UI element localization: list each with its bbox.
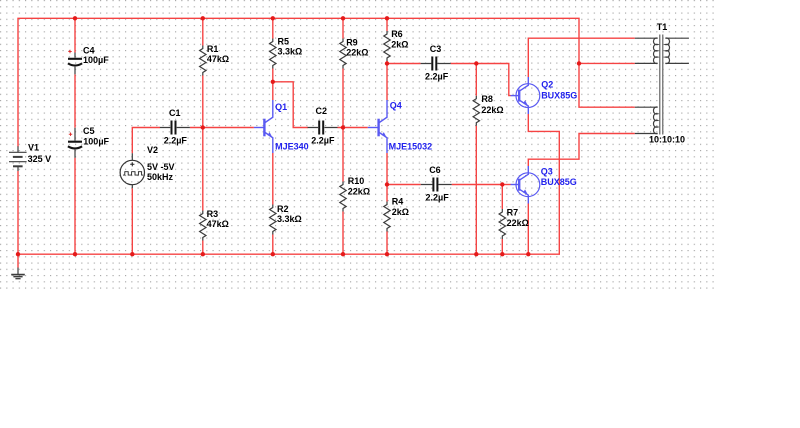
junction bottom rail ground [16,252,20,256]
svg-text:R4: R4 [392,197,404,207]
svg-text:MJE340: MJE340 [275,142,309,152]
resistor R1 [200,44,230,76]
wire Q3 collector to secondary bottom [528,134,635,167]
wire C2 to R9 R10 node to Q4 base [338,127,368,129]
svg-text:C3: C3 [430,44,442,54]
svg-text:R10: R10 [348,176,365,186]
svg-text:22kΩ: 22kΩ [346,48,368,58]
transformer T1 [635,22,689,145]
svg-text:V1: V1 [28,143,39,153]
svg-text:2kΩ: 2kΩ [392,207,409,217]
junction node C2 R9 R10 [341,125,345,129]
wire ground stub [17,254,19,267]
junction bottom rail R3 [201,252,205,256]
wire R9 top [342,18,344,38]
wire C6 to R7 node [452,184,503,186]
junction node R6 Q4 collector C3 [385,61,389,65]
svg-text:50kHz: 50kHz [147,172,174,182]
resistor R2 [270,204,302,235]
wire R3 bottom [202,241,204,255]
wire R4 bottom [386,232,388,255]
wire top V+ rail [18,18,579,146]
junction Q1 collector branch [271,80,275,84]
capacitor C1 [160,108,190,146]
junction top rail R6 [385,16,389,20]
svg-text:47kΩ: 47kΩ [207,54,229,64]
wire Q2 collector to primary top [528,38,635,77]
wire C6 line left [387,184,421,186]
svg-text:C4: C4 [83,45,95,55]
svg-text:C1: C1 [169,108,181,118]
wire R5 top [272,18,274,38]
battery V1 [9,143,51,172]
wire rail right drop to transformer secondary top [579,63,635,107]
wire R10 top [342,128,344,182]
grid dot background [0,0,714,289]
source V2 [120,145,174,188]
svg-text:22kΩ: 22kΩ [481,105,503,115]
svg-text:BUX85G: BUX85G [541,177,577,187]
svg-text:3.3kΩ: 3.3kΩ [278,47,303,57]
wire primary bottom feed [579,62,635,64]
svg-text:R2: R2 [277,204,289,214]
capacitor C5 [68,126,110,158]
wire R5 bottom to collector node [272,69,274,101]
svg-text:Q1: Q1 [275,102,287,112]
resistor R3 [200,209,229,241]
svg-text:2.2µF: 2.2µF [425,72,449,82]
svg-text:100µF: 100µF [83,55,109,65]
capacitor C2 [308,106,338,145]
resistor R5 [270,37,303,69]
junction bottom rail V2 [130,252,134,256]
junction bottom rail R10 [341,252,345,256]
wire below C5 [74,158,76,255]
svg-text:R7: R7 [507,207,519,217]
junction bottom rail R4 [385,252,389,256]
wire R1 top [202,18,204,45]
svg-text:3.3kΩ: 3.3kΩ [277,214,302,224]
wire R7 top [501,185,503,210]
junction top rail R9 [341,16,345,20]
svg-text:5V -5V: 5V -5V [147,162,175,172]
wire R7 bottom [501,239,503,254]
wire R7 node to Q3 base [502,184,510,186]
wire Q4 emitter to C6 node [386,153,388,185]
wire R4 top [386,185,388,202]
wire C3 to R8 node [451,63,477,65]
wire R10 bottom [342,212,344,255]
junction rail to primary bottom [577,61,581,65]
wire collector branch to C2 [273,82,308,128]
junction node C3 R8 [474,61,478,65]
svg-text:R8: R8 [481,94,493,104]
svg-text:Q2: Q2 [541,80,553,90]
wire R6 top [386,18,388,31]
resistor R4 [384,197,409,232]
resistor R6 [384,29,409,61]
wire bottom 0V rail [18,114,559,254]
wire C1 to R1 R3 node to Q1 base [190,127,254,129]
svg-text:R5: R5 [278,37,290,47]
junction bottom rail R8 [474,252,478,256]
wire R9 bottom [342,69,344,128]
transistor Q3 [511,166,577,204]
wire R1 bottom to node [202,76,204,128]
svg-text:10:10:10: 10:10:10 [649,135,685,145]
capacitor C4 [68,45,109,74]
svg-text:R3: R3 [207,209,219,219]
svg-text:V2: V2 [147,145,158,155]
wire between C4 and C5 [74,74,76,127]
svg-text:47kΩ: 47kΩ [207,219,229,229]
junction bottom rail C5 [73,252,77,256]
svg-text:2.2µF: 2.2µF [164,136,188,146]
svg-text:C6: C6 [429,165,441,175]
wire Q4 collector [386,64,388,101]
junction top rail R1 [201,16,205,20]
wire R8 top [475,64,477,96]
wire Q1 emitter to R2 [272,153,274,205]
junction top rail C4 branch [73,16,77,20]
transistor Q4 [368,100,432,153]
svg-text:22kΩ: 22kΩ [507,218,529,228]
svg-text:Q3: Q3 [541,167,553,177]
svg-text:R6: R6 [391,29,403,39]
capacitor C6 [421,165,452,202]
junction node C1 R1 R3 [201,125,205,129]
ground [11,268,25,279]
wire R3 top [202,128,204,211]
transistor Q1 [254,100,309,153]
svg-text:C5: C5 [83,126,95,136]
wire Q3 emitter [527,204,529,255]
svg-text:22kΩ: 22kΩ [348,187,370,197]
wire V2 bottom [131,188,133,254]
wire R6 bottom to C3 node [386,61,388,64]
resistor R10 [340,176,370,212]
wire V2 top to C1 line [132,128,160,154]
junction bottom rail R2 [271,252,275,256]
junction bottom rail R7 [500,252,504,256]
svg-text:Q4: Q4 [390,101,402,111]
svg-text:T1: T1 [657,22,668,32]
junction node Q4 emitter R4 C6 [385,182,389,186]
capacitor C3 [421,44,451,81]
svg-text:R9: R9 [346,37,358,47]
resistor R9 [340,37,369,68]
junction top rail R5 [271,16,275,20]
wire C4 C5 branch [74,18,76,52]
svg-text:2.2µF: 2.2µF [426,193,450,203]
svg-text:100µF: 100µF [83,137,109,147]
resistor R8 [473,94,504,126]
wire R8 bottom long drop [475,126,477,255]
resistor R7 [499,207,529,239]
wire C3 line left [387,63,421,65]
junction bottom rail Q3 emitter [526,252,530,256]
svg-text:MJE15032: MJE15032 [389,142,433,152]
svg-text:BUX85G: BUX85G [541,91,577,101]
svg-text:2.2µF: 2.2µF [311,136,335,146]
junction node C6 R7 [500,182,504,186]
svg-text:2kΩ: 2kΩ [391,39,408,49]
wire C3 node to Q2 base [476,64,510,96]
transistor Q2 [511,77,578,114]
svg-text:C2: C2 [316,106,328,116]
svg-text:325 V: 325 V [28,154,52,164]
wire R2 bottom [272,235,274,255]
svg-text:R1: R1 [207,44,219,54]
